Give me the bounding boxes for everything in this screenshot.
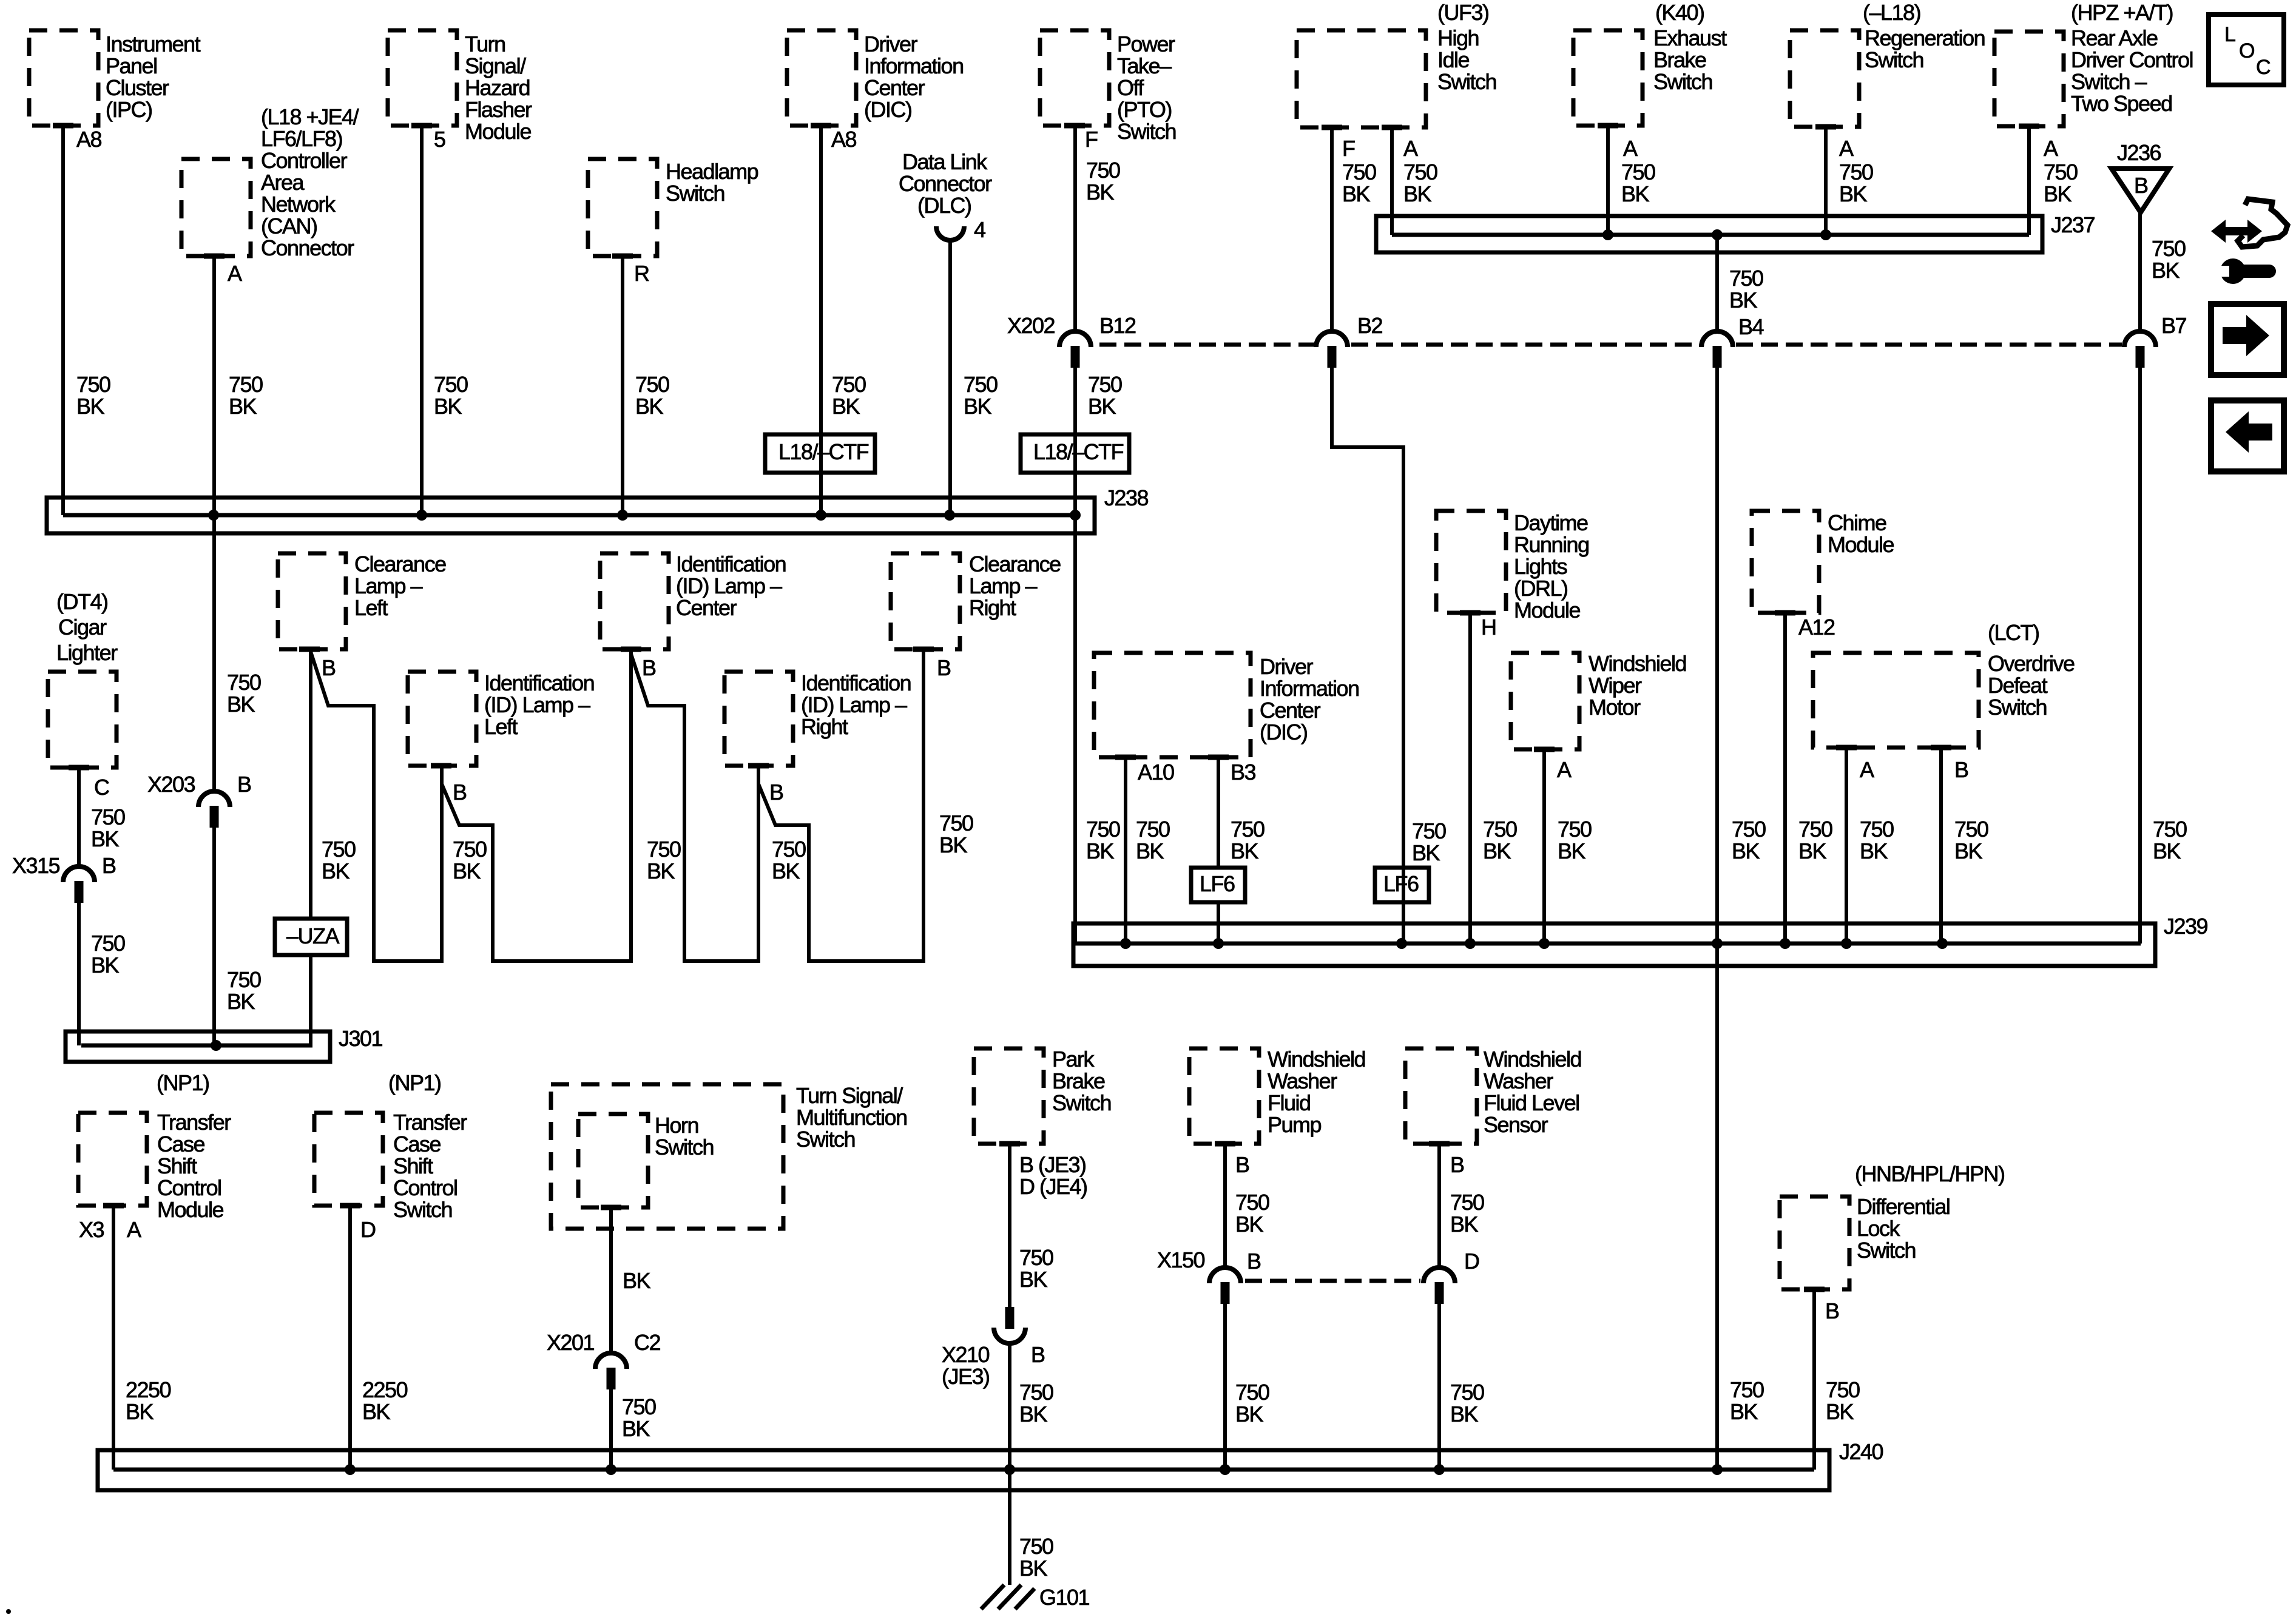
svg-text:B: B (642, 655, 656, 680)
svg-text:B: B (2134, 173, 2148, 198)
svg-text:J301: J301 (339, 1026, 383, 1051)
svg-text:B: B (453, 780, 467, 805)
svg-text:A: A (2044, 136, 2058, 161)
svg-text:B: B (1235, 1152, 1249, 1177)
svg-text:A12: A12 (1798, 615, 1835, 640)
svg-text:R: R (634, 261, 649, 286)
svg-text:J238: J238 (1104, 485, 1149, 510)
svg-text:Data Link: Data Link (902, 149, 988, 174)
svg-text:(HPZ +A/T): (HPZ +A/T) (2071, 0, 2173, 25)
svg-text:B: B (322, 655, 336, 680)
svg-text:X315: X315 (12, 853, 60, 878)
svg-text:A10: A10 (1138, 760, 1174, 785)
svg-text:A: A (1403, 136, 1418, 161)
svg-text:(HNB/HPL/HPN): (HNB/HPL/HPN) (1855, 1161, 2005, 1186)
svg-text:B: B (1954, 757, 1968, 782)
svg-text:5: 5 (434, 127, 445, 152)
svg-text:(UF3): (UF3) (1437, 0, 1489, 25)
svg-text:B: B (1450, 1152, 1464, 1177)
svg-text:BK: BK (623, 1268, 651, 1293)
svg-text:X203: X203 (147, 772, 195, 797)
svg-text:J239: J239 (2164, 914, 2208, 939)
svg-text:B3: B3 (1231, 760, 1256, 785)
svg-text:A: A (228, 261, 242, 286)
svg-text:C: C (94, 775, 109, 800)
svg-text:J236: J236 (2117, 140, 2161, 165)
svg-text:X201: X201 (547, 1330, 595, 1355)
svg-text:L18/–CTF: L18/–CTF (1033, 439, 1124, 464)
svg-text:LF6: LF6 (1383, 871, 1419, 896)
svg-text:A8: A8 (76, 127, 102, 152)
svg-text:D: D (360, 1217, 376, 1242)
svg-text:4: 4 (974, 217, 985, 242)
svg-text:B: B (1031, 1342, 1045, 1367)
svg-text:A: A (1623, 136, 1638, 161)
svg-text:(JE3): (JE3) (942, 1364, 990, 1389)
svg-text:X150: X150 (1157, 1247, 1205, 1272)
svg-text:B2: B2 (1357, 313, 1383, 338)
svg-text:Connector: Connector (899, 171, 992, 196)
svg-text:(–L18): (–L18) (1863, 0, 1920, 25)
svg-text:O: O (2239, 39, 2254, 62)
svg-text:C: C (2256, 56, 2271, 79)
svg-text:LF6: LF6 (1200, 871, 1235, 896)
svg-text:B (JE3): B (JE3) (1019, 1152, 1086, 1177)
svg-text:Lighter: Lighter (56, 640, 118, 665)
svg-text:X202: X202 (1007, 313, 1055, 338)
svg-text:B: B (1825, 1298, 1839, 1323)
svg-text:H: H (1481, 615, 1496, 640)
svg-text:(LCT): (LCT) (1988, 620, 2039, 645)
svg-text:B: B (102, 853, 116, 878)
svg-text:L18/–CTF: L18/–CTF (778, 439, 869, 464)
svg-text:(NP1): (NP1) (388, 1070, 441, 1095)
svg-text:A: A (127, 1217, 141, 1242)
svg-text:F: F (1342, 136, 1355, 161)
svg-text:B: B (769, 780, 783, 805)
svg-text:A: A (1557, 757, 1572, 782)
svg-text:C2: C2 (634, 1330, 660, 1355)
svg-text:D (JE4): D (JE4) (1019, 1174, 1087, 1199)
svg-text:(NP1): (NP1) (157, 1070, 209, 1095)
svg-text:X3: X3 (79, 1217, 104, 1242)
svg-text:B: B (1247, 1249, 1261, 1274)
svg-text:B4: B4 (1738, 314, 1764, 339)
svg-text:J237: J237 (2051, 212, 2095, 237)
svg-text:X210: X210 (942, 1342, 990, 1367)
svg-text:A8: A8 (831, 127, 857, 152)
svg-text:F: F (1085, 127, 1098, 152)
svg-text:(DT4): (DT4) (56, 589, 108, 614)
svg-text:B12: B12 (1099, 313, 1136, 338)
svg-text:–UZA: –UZA (286, 923, 340, 948)
svg-text:B: B (937, 655, 951, 680)
svg-text:Cigar: Cigar (58, 615, 107, 640)
svg-text:ChimeModule: ChimeModule (1828, 510, 1894, 557)
svg-text:L: L (2224, 23, 2235, 46)
svg-text:(K40): (K40) (1655, 0, 1704, 25)
svg-text:A: A (1839, 136, 1854, 161)
svg-text:J240: J240 (1839, 1439, 1883, 1464)
svg-text:B: B (237, 772, 251, 797)
svg-text:B7: B7 (2161, 313, 2187, 338)
svg-text:(DLC): (DLC) (917, 193, 971, 218)
svg-text:A: A (1860, 757, 1874, 782)
svg-text:D: D (1464, 1249, 1479, 1274)
svg-text:G101: G101 (1039, 1585, 1090, 1610)
